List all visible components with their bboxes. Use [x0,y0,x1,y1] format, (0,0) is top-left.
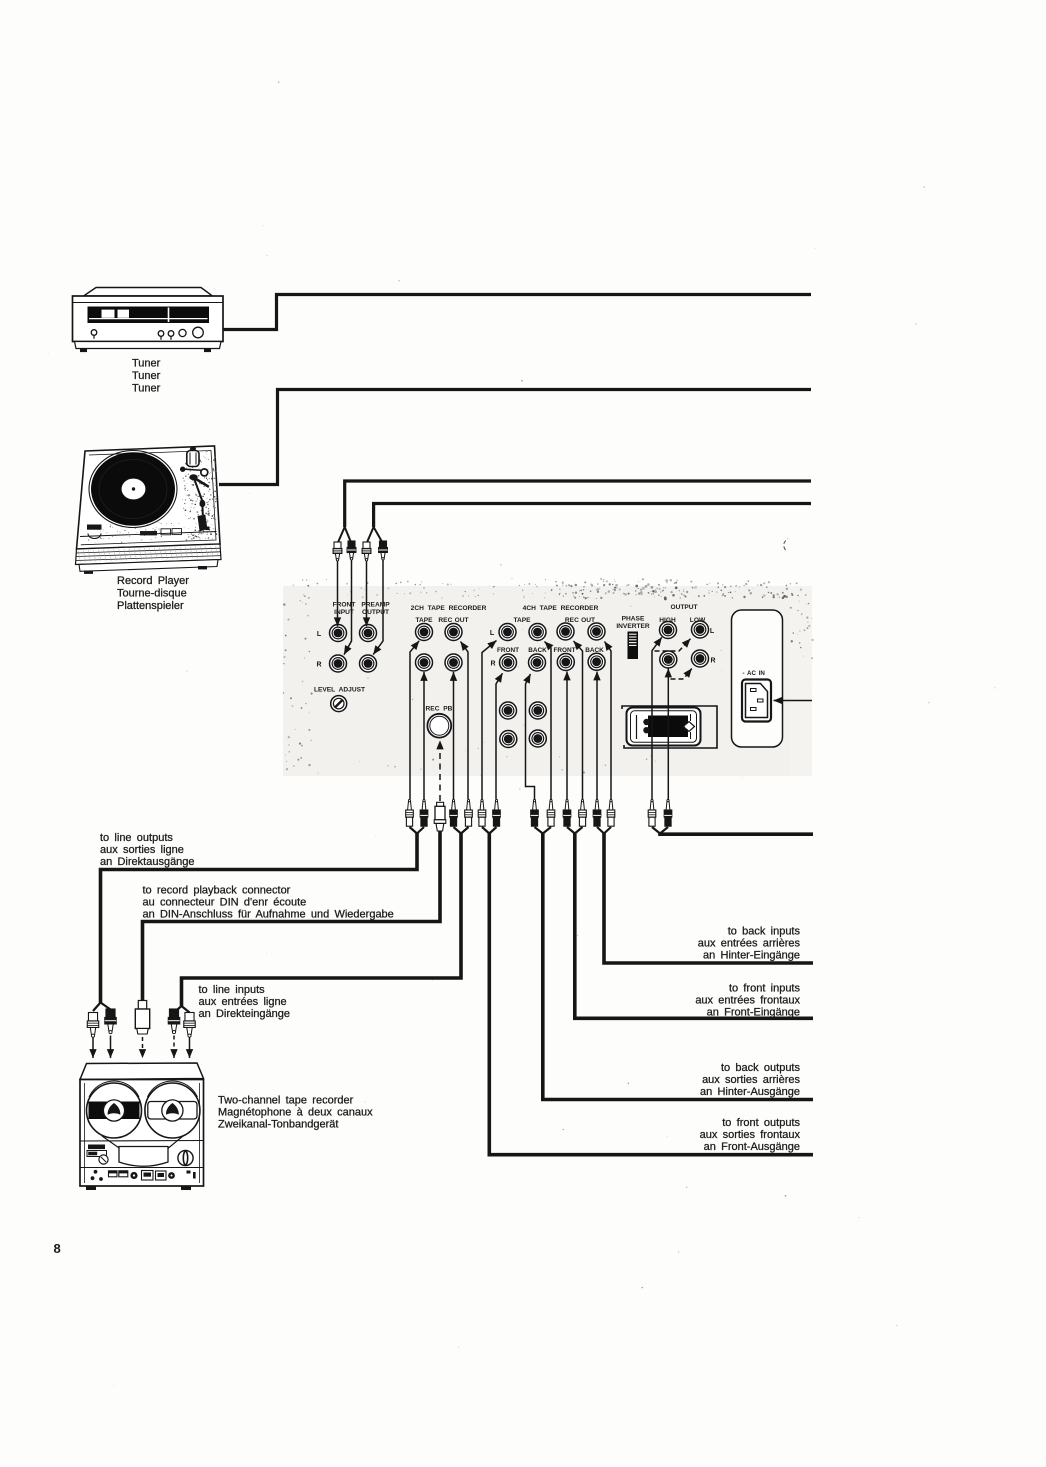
svg-text:an Direkteingänge: an Direkteingänge [199,1008,290,1020]
svg-text:to back outputs: to back outputs [721,1062,801,1074]
svg-text:Plattenspieler: Plattenspieler [117,600,184,612]
svg-text:TAPE: TAPE [513,617,531,624]
svg-text:- AC IN: - AC IN [743,670,766,677]
svg-text:Magnétophone à deux canaux: Magnétophone à deux canaux [218,1107,373,1119]
svg-text:L: L [317,631,322,638]
svg-text:REC OUT: REC OUT [438,617,468,624]
svg-text:aux entrées ligne: aux entrées ligne [199,996,287,1008]
svg-text:BACK: BACK [528,647,547,654]
svg-text:to front outputs: to front outputs [722,1117,800,1129]
svg-text:Tuner: Tuner [132,358,161,370]
svg-text:L: L [490,630,495,637]
svg-text:LEVEL ADJUST: LEVEL ADJUST [314,687,365,694]
svg-text:PHASE: PHASE [622,616,645,623]
svg-text:INVERTER: INVERTER [616,623,650,630]
svg-text:an Direktausgänge: an Direktausgänge [100,856,195,868]
svg-text:to front inputs: to front inputs [729,983,801,995]
svg-text:aux sorties frontaux: aux sorties frontaux [700,1129,801,1141]
svg-text:FRONT: FRONT [497,647,519,654]
svg-text:au connecteur DIN d'enr écoute: au connecteur DIN d'enr écoute [143,897,307,909]
svg-text:TAPE: TAPE [415,617,433,624]
svg-text:R: R [710,658,715,665]
svg-text:aux entrées arrières: aux entrées arrières [698,938,801,950]
svg-text:4CH TAPE RECORDER: 4CH TAPE RECORDER [523,605,599,612]
svg-text:Tuner: Tuner [132,370,161,382]
svg-text:an Front-Eingänge: an Front-Eingänge [707,1007,800,1019]
svg-text:R: R [490,661,495,668]
svg-text:an DIN-Anschluss für Aufnahme: an DIN-Anschluss für Aufnahme und Wieder… [143,909,394,921]
svg-text:to line outputs: to line outputs [100,832,173,844]
svg-text:to back inputs: to back inputs [728,926,801,938]
svg-text:L: L [710,628,715,635]
svg-text:FRONT: FRONT [553,647,575,654]
svg-text:Tourne-disque: Tourne-disque [117,588,187,600]
svg-text:BACK: BACK [585,647,604,654]
svg-text:REC OUT: REC OUT [565,617,595,624]
svg-text:Two-channel tape recorder: Two-channel tape recorder [218,1095,354,1107]
svg-text:aux entrées frontaux: aux entrées frontaux [695,995,800,1007]
svg-text:OUTPUT: OUTPUT [670,604,697,611]
svg-text:Record Player: Record Player [117,575,189,587]
svg-text:an Hinter-Ausgänge: an Hinter-Ausgänge [700,1086,800,1098]
svg-text:to line inputs: to line inputs [199,984,266,996]
svg-text:Tuner: Tuner [132,383,161,395]
svg-text:aux sorties arrières: aux sorties arrières [702,1074,800,1086]
svg-text:8: 8 [54,1241,61,1256]
svg-text:an Front-Ausgänge: an Front-Ausgänge [704,1141,800,1153]
svg-text:to record playback connector: to record playback connector [143,885,291,897]
svg-text:REC PB: REC PB [426,706,453,713]
svg-text:PREAMP: PREAMP [361,602,390,609]
svg-text:an Hinter-Eingänge: an Hinter-Eingänge [703,950,800,962]
svg-text:2CH TAPE RECORDER: 2CH TAPE RECORDER [411,605,487,612]
svg-text:Zweikanal-Tonbandgerät: Zweikanal-Tonbandgerät [218,1119,338,1131]
svg-text:R: R [316,662,321,669]
svg-text:aux sorties ligne: aux sorties ligne [100,844,184,856]
